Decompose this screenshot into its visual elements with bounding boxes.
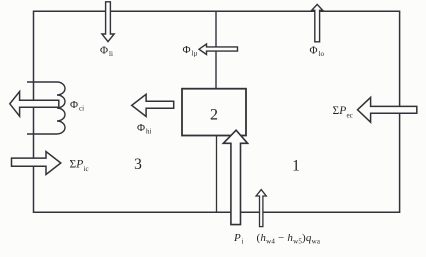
label Phi_hi [137,122,152,136]
wire: vertical divider upper (top edge to box 2) [215,11,217,88]
arrow P_i (big up, into box 2) [223,130,247,224]
label Sigma P_ic [70,159,89,173]
label Phi_ci [70,99,84,113]
arrow Phi_lu (left, through upper divider) [199,44,238,55]
svg-text:P: P [233,232,241,244]
svg-text:Φ: Φ [183,44,191,56]
svg-text:hi: hi [146,128,152,136]
svg-text:lμ: lμ [192,50,198,58]
arrow Phi_hi (left, out of box 2) [132,94,174,116]
box 2 (heat source block) [182,89,246,136]
svg-text:1: 1 [292,157,300,174]
label Phi_li [100,45,113,59]
svg-text:2: 2 [210,106,218,123]
svg-text:lo: lo [319,50,325,58]
svg-text:Φ: Φ [100,45,108,57]
arrow Sigma P_ec (left, through right wall) [358,97,417,122]
arrow Phi_ci (left, through coil) [10,92,59,117]
svg-text:ΣP: ΣP [70,159,84,171]
svg-text:Φ: Φ [70,99,78,111]
outer boundary box [34,11,400,212]
svg-text:Φ: Φ [137,122,145,134]
cooling coil on left wall [27,82,65,134]
svg-text:i: i [242,238,244,246]
wire: vertical divider lower (box 2 to bottom edge) [216,136,218,213]
label Phi_lo [310,45,325,59]
svg-text:li: li [109,50,113,58]
label Sigma P_ec [333,105,353,120]
svg-text:ec: ec [347,112,353,120]
svg-text:ΣP: ΣP [333,105,347,117]
svg-text:ci: ci [79,105,84,113]
svg-text:Φ: Φ [310,45,318,57]
svg-text:3: 3 [134,156,142,173]
arrow Sigma P_ic (right, through left wall) [12,152,61,175]
svg-text:ic: ic [84,165,89,173]
arrow Phi_lo (up, through top edge) [312,4,323,41]
label (hw4 - hw5)qwa [257,232,321,246]
label Phi_lu [183,44,198,58]
arrow (hw4-hw5)qwa (small up, through bottom edge) [256,190,266,227]
arrow Phi_li (down, through top edge) [102,2,114,42]
label P_i [233,232,244,246]
